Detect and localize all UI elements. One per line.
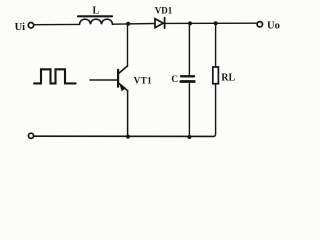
diode VD1 triangle (155, 19, 163, 28)
svg-text:RL: RL (221, 72, 235, 83)
wire: Ui terminal to inductor (34, 23, 80, 25)
wire: collector to top junction (127, 24, 129, 67)
wire: diode to output terminal (166, 22, 257, 24)
node: emitter bottom junction (126, 135, 130, 139)
wire: capacitor bottom lead (188, 83, 190, 137)
wire: capacitor top lead (188, 23, 190, 75)
node: resistor top junction (214, 21, 218, 25)
svg-text:VT1: VT1 (134, 75, 152, 85)
wire: resistor top lead (215, 23, 217, 67)
square wave drive symbol (34, 69, 76, 83)
inductor L core bar (78, 15, 112, 17)
wire: resistor bottom lead with corner (214, 84, 216, 137)
node: capacitor bottom junction (187, 135, 191, 139)
resistor RL body (213, 67, 219, 84)
svg-text:Uo: Uo (267, 21, 280, 32)
wire: inductor to diode (113, 23, 155, 26)
input terminal (bottom left) (28, 133, 33, 138)
wire: emitter to bottom wire (127, 91, 129, 137)
transistor VT1 (118, 66, 128, 91)
wire: base lead (90, 79, 118, 81)
svg-text:VD1: VD1 (155, 6, 173, 16)
output terminal Uo (257, 22, 262, 27)
bottom wire (34, 135, 214, 137)
input terminal Ui (top left) (28, 23, 33, 28)
node: capacitor top junction (188, 21, 192, 25)
capacitor C plates (181, 76, 195, 81)
svg-text:C: C (171, 74, 178, 85)
diode VD1 cathode bar (164, 18, 166, 29)
inductor L windings (80, 19, 113, 24)
svg-text:Ui: Ui (15, 22, 26, 33)
svg-text:L: L (93, 6, 100, 17)
node: inductor/collector/diode junction (126, 22, 130, 26)
